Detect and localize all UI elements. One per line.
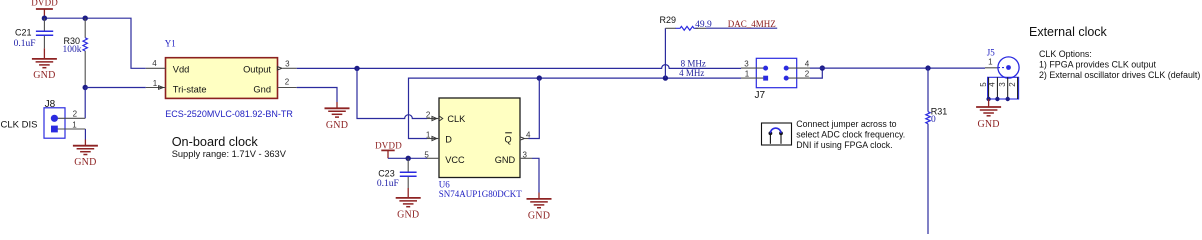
svg-text:GND: GND <box>977 119 999 130</box>
wire tri-state net to Y1 pin1 <box>85 87 146 89</box>
svg-text:2: 2 <box>426 111 431 120</box>
wire tri-state net down to J8 pin2 <box>84 88 86 119</box>
svg-text:Connect jumper across to: Connect jumper across to <box>796 119 896 129</box>
resistor R31 <box>926 106 948 125</box>
wire J7 pin2 riser to pin4 net <box>810 68 822 78</box>
label CLK Options <box>1039 49 1200 80</box>
svg-text:D: D <box>445 135 452 145</box>
pin 5 U6 VCC <box>424 151 439 160</box>
pin 4 Y1 Vdd <box>146 59 166 68</box>
node junction C23 tap <box>406 156 411 161</box>
wire 8MHz down to U6 CLK (hop over D riser) <box>357 68 427 118</box>
node junction tri-state net <box>83 85 88 90</box>
svg-text:C21: C21 <box>15 28 32 38</box>
svg-text:On-board clock: On-board clock <box>172 135 259 149</box>
svg-text:100k: 100k <box>63 45 82 55</box>
svg-text:Gnd: Gnd <box>253 84 271 94</box>
svg-text:select ADC clock frequency.: select ADC clock frequency. <box>796 130 905 140</box>
svg-text:3: 3 <box>523 151 528 160</box>
pin 1 Y1 Tri-state <box>146 79 166 89</box>
svg-text:Vdd: Vdd <box>173 64 190 74</box>
svg-text:U6: U6 <box>439 179 450 189</box>
pin 1 U6 D <box>426 131 439 141</box>
ground GND (under U6) <box>527 193 552 222</box>
ground GND (under J8) <box>73 140 98 169</box>
svg-text:DAC_4MHZ: DAC_4MHZ <box>728 19 776 29</box>
wire Y1 Gnd to ground <box>297 88 337 103</box>
pin 3 U6 GND <box>520 151 532 160</box>
node junction 8MHz to U6 CLK <box>354 66 359 71</box>
svg-text:CLK DIS: CLK DIS <box>1 119 38 130</box>
svg-text:Supply range: 1.71V - 363V: Supply range: 1.71V - 363V <box>172 149 287 159</box>
svg-text:GND: GND <box>74 157 96 168</box>
note box jumper icon <box>762 123 792 145</box>
wire U6 GND to ground <box>532 158 539 192</box>
svg-text:1: 1 <box>988 57 993 66</box>
svg-text:CLK Options:: CLK Options: <box>1039 49 1092 59</box>
node junction Q-bar riser on 4MHz <box>537 75 542 80</box>
ground GND (under C21) <box>32 48 57 81</box>
svg-text:GND: GND <box>495 155 516 165</box>
node junction R31 tap <box>925 65 930 70</box>
wire U6 Q-bar feedback riser <box>529 78 540 138</box>
svg-text:1) FPGA provides CLK output: 1) FPGA provides CLK output <box>1039 60 1156 70</box>
svg-text:0: 0 <box>931 115 936 125</box>
svg-text:VCC: VCC <box>445 155 465 165</box>
svg-text:2: 2 <box>73 110 78 119</box>
node junction DVDD/C21 <box>42 16 47 21</box>
svg-text:4: 4 <box>805 59 810 68</box>
flip-flop U6 <box>439 98 523 199</box>
svg-text:0.1uF: 0.1uF <box>14 39 36 49</box>
svg-text:GND: GND <box>397 209 419 220</box>
svg-text:4: 4 <box>988 82 997 87</box>
capacitor C21 <box>14 18 54 49</box>
connector J5 shield pins <box>979 77 1019 101</box>
resistor R30 <box>63 18 88 87</box>
node junction R29 leg on 4MHz <box>663 75 668 80</box>
svg-text:2: 2 <box>805 69 810 78</box>
svg-text:Tri-state: Tri-state <box>173 84 207 94</box>
svg-text:GND: GND <box>528 210 550 221</box>
svg-text:1: 1 <box>153 79 158 88</box>
ground GND (under J5) <box>976 99 1001 130</box>
wire to DAC_4MHZ <box>706 27 777 29</box>
wire J8 pin1 to ground <box>84 129 86 140</box>
svg-text:8 MHz: 8 MHz <box>681 58 706 68</box>
svg-text:SN74AUP1G80DCKT: SN74AUP1G80DCKT <box>439 189 523 199</box>
svg-text:CLK: CLK <box>447 114 466 124</box>
connector J7 <box>741 58 810 101</box>
svg-text:Q: Q <box>504 135 511 145</box>
svg-text:J5: J5 <box>987 48 996 58</box>
note text ADC clock <box>796 119 905 150</box>
ground GND (under C23) <box>396 188 421 220</box>
ground GND (under Y1) <box>325 102 350 131</box>
node junction R30 top <box>83 16 88 21</box>
wire 8MHz net (Y1 output to J7 pin3, hop over R29 leg) <box>297 65 741 69</box>
svg-text:5: 5 <box>979 82 988 87</box>
svg-text:4 MHz: 4 MHz <box>679 68 704 78</box>
svg-text:Output: Output <box>243 64 271 74</box>
wire DVDD to U6 VCC <box>388 157 427 159</box>
connector J5 (SMA) <box>985 48 1019 79</box>
capacitor C23 <box>377 158 417 189</box>
svg-text:External clock: External clock <box>1029 25 1108 39</box>
svg-text:GND: GND <box>33 70 55 81</box>
wire 4MHz net (D riser, Q-bar feedback, to J7 pin1) <box>409 78 742 138</box>
svg-text:ECS-2520MVLC-081.92-BN-TR: ECS-2520MVLC-081.92-BN-TR <box>165 109 293 119</box>
svg-text:C23: C23 <box>378 169 395 179</box>
pin 3 Y1 Output <box>277 59 296 70</box>
power symbol DVDD (at U6 VCC) <box>375 140 402 158</box>
pin 2 Y1 Gnd <box>278 78 297 88</box>
svg-text:DNI if using FPGA clock.: DNI if using FPGA clock. <box>796 140 892 150</box>
connector J8 <box>44 99 85 138</box>
wire top DVDD rail to Y1 Vdd <box>44 18 145 68</box>
oscillator Y1 <box>165 39 278 99</box>
wire R29 leg up <box>664 28 666 78</box>
svg-text:1: 1 <box>72 120 77 129</box>
svg-text:2) External oscillator drives: 2) External oscillator drives CLK (defau… <box>1039 70 1200 80</box>
power symbol DVDD (top-left) <box>31 0 58 18</box>
node junction J7 output <box>820 65 825 70</box>
svg-text:Y1: Y1 <box>165 39 176 49</box>
svg-text:R29: R29 <box>660 15 677 25</box>
svg-text:2: 2 <box>285 78 290 87</box>
svg-text:DVDD: DVDD <box>375 140 402 150</box>
svg-text:3: 3 <box>744 59 749 68</box>
svg-text:DVDD: DVDD <box>31 0 58 8</box>
svg-text:3: 3 <box>285 59 290 68</box>
svg-text:J7: J7 <box>755 90 766 101</box>
svg-text:2: 2 <box>1008 82 1017 87</box>
wire R31 to bottom edge <box>927 124 929 234</box>
svg-text:GND: GND <box>326 120 348 131</box>
pin 2 U6 CLK <box>426 111 443 122</box>
pin 4 U6 Q-bar <box>520 131 531 141</box>
resistor R29 <box>660 15 712 30</box>
wire J7 to J5 <box>810 67 985 69</box>
svg-text:4: 4 <box>152 59 157 68</box>
svg-text:3: 3 <box>998 82 1007 87</box>
wire clock net down to R31 <box>927 68 929 112</box>
svg-text:0.1uF: 0.1uF <box>377 179 399 189</box>
svg-text:1: 1 <box>745 69 750 78</box>
svg-text:1: 1 <box>426 131 431 140</box>
